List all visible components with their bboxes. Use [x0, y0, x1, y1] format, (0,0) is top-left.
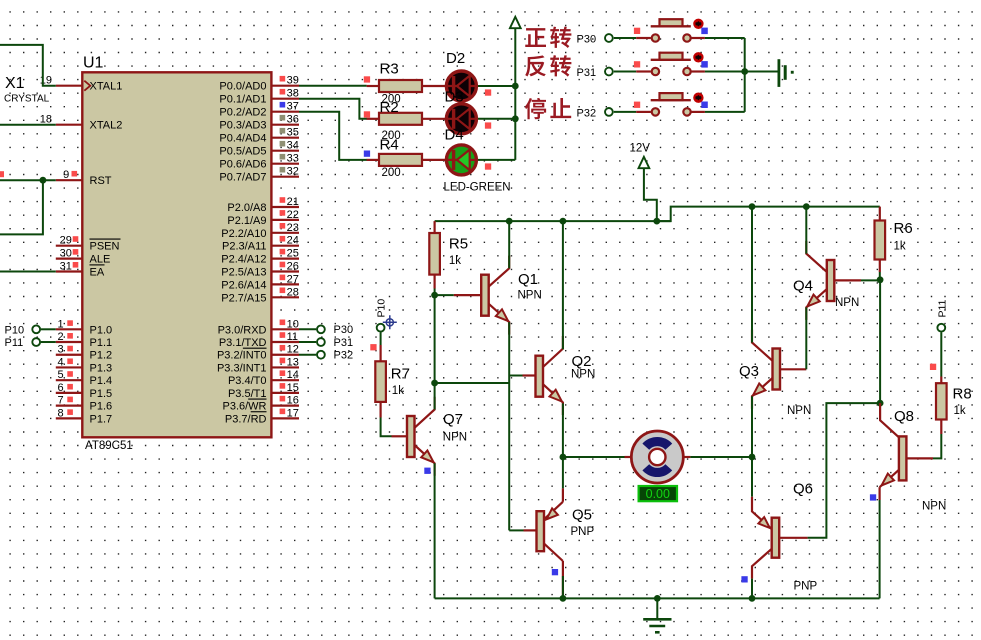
- button P30 button actuator: [694, 20, 702, 28]
- svg-text:29: 29: [60, 235, 72, 247]
- state square pin 39: [280, 76, 286, 82]
- pin stub right 14: [271, 283, 299, 285]
- resistor R3 body: [379, 80, 422, 92]
- button P31 button pin right: [692, 70, 705, 72]
- transistor Q4 emitter: [806, 289, 827, 320]
- svg-text:12: 12: [287, 344, 299, 356]
- svg-text:25: 25: [287, 248, 299, 260]
- wire RST: [0, 179, 56, 181]
- wire Q8 base: [906, 457, 933, 459]
- svg-text:P3.5/T1: P3.5/T1: [228, 388, 267, 400]
- svg-text:38: 38: [287, 88, 299, 100]
- svg-text:23: 23: [287, 222, 299, 234]
- svg-text:8: 8: [57, 407, 63, 419]
- node Q1 base: [431, 292, 438, 299]
- pin stub right 5: [271, 150, 299, 152]
- svg-text:P0.7/AD7: P0.7/AD7: [219, 172, 266, 184]
- resistor R4 lead right: [422, 159, 445, 161]
- pin stub right 15: [271, 296, 299, 298]
- power terminal arrow top: [510, 17, 521, 28]
- svg-text:EA: EA: [90, 267, 105, 279]
- terminal P30: [317, 325, 325, 333]
- svg-text:2: 2: [57, 331, 63, 343]
- state square RST wire: [0, 171, 4, 177]
- state square pin 30: [73, 249, 79, 255]
- svg-text:P3.1/TXD: P3.1/TXD: [219, 337, 267, 349]
- svg-text:P10: P10: [376, 299, 388, 318]
- state square pin 26: [280, 262, 286, 268]
- state square Q5: [552, 569, 558, 575]
- wire Q1 base: [435, 294, 454, 296]
- svg-text:P3.3/INT1: P3.3/INT1: [217, 362, 267, 374]
- power bus LEDs: [514, 29, 516, 160]
- overline RD: [251, 411, 267, 413]
- wire button P31 button to bus: [705, 71, 745, 73]
- state square button P32 button right: [701, 102, 708, 109]
- wire P10 to R7: [380, 332, 382, 345]
- transistor Q8 collector: [880, 403, 899, 437]
- svg-text:22: 22: [287, 209, 299, 221]
- button P31 button pin left: [636, 70, 651, 72]
- transistor Q1 bar: [481, 275, 489, 316]
- pin stub right 6: [271, 163, 299, 165]
- button P32 button actuator: [694, 94, 702, 102]
- svg-text:5: 5: [57, 369, 63, 381]
- svg-text:R6: R6: [894, 220, 913, 237]
- svg-text:P2.3/A11: P2.3/A11: [222, 241, 266, 253]
- svg-text:35: 35: [287, 127, 299, 139]
- pin stub left 13: [56, 417, 84, 419]
- node motor left: [560, 454, 567, 461]
- wire P11 to pin2: [41, 341, 56, 343]
- button P32 button cap: [660, 93, 683, 100]
- wire node to Q2 base column: [435, 382, 510, 384]
- pin stub right 4: [271, 137, 299, 139]
- node rail Q6: [749, 595, 756, 602]
- svg-text:D2: D2: [446, 50, 465, 67]
- wire Q7 emitter down: [434, 463, 436, 598]
- pin stub left 5: [56, 270, 84, 272]
- wire Q2 emitter to motor node: [562, 403, 564, 457]
- svg-text:Q4: Q4: [793, 278, 813, 295]
- supply bus left: [435, 220, 671, 222]
- svg-text:PNP: PNP: [794, 581, 818, 593]
- node bus D3: [512, 115, 519, 122]
- pin stub right 16: [271, 328, 299, 330]
- wire D3 to bus: [478, 118, 515, 120]
- svg-text:D4: D4: [445, 127, 464, 144]
- node bus Q2: [560, 218, 567, 225]
- transistor Q5 emitter: [544, 502, 563, 520]
- wire button bus vertical: [744, 38, 746, 112]
- state square button P31 button right: [701, 61, 708, 68]
- overline EA: [90, 264, 105, 266]
- transistor Q6 bar: [772, 518, 780, 558]
- terminal P11: [32, 338, 40, 346]
- state square pin 29: [73, 236, 79, 242]
- svg-text:NPN: NPN: [835, 297, 859, 309]
- svg-text:16: 16: [287, 395, 299, 407]
- wire D4 to bus: [478, 159, 515, 161]
- svg-text:P1.6: P1.6: [90, 401, 113, 413]
- motor brush bottom: [642, 464, 672, 477]
- ground rail: [435, 597, 880, 599]
- IC U1 AT89C51 body: [82, 72, 271, 437]
- svg-text:R8: R8: [953, 386, 972, 403]
- transistor Q2 bar: [536, 356, 544, 397]
- transistor Q8 bar: [899, 436, 907, 480]
- motor lead left: [625, 456, 633, 458]
- svg-text:CRYSTAL: CRYSTAL: [4, 94, 50, 105]
- svg-text:Q6: Q6: [793, 481, 813, 498]
- svg-text:R7: R7: [391, 366, 410, 383]
- svg-text:NPN: NPN: [443, 432, 467, 444]
- state square button P32 button left: [634, 102, 640, 108]
- svg-text:P2.1/A9: P2.1/A9: [227, 215, 266, 227]
- node RST junction: [40, 177, 47, 184]
- svg-text:P0.6/AD6: P0.6/AD6: [219, 159, 266, 171]
- svg-text:21: 21: [287, 196, 299, 208]
- svg-text:P3.4/T0: P3.4/T0: [228, 375, 267, 387]
- state square pin 1: [67, 320, 73, 326]
- svg-text:36: 36: [287, 114, 299, 126]
- pin stub left 0: [56, 85, 84, 87]
- button P30 button contact right: [683, 34, 690, 41]
- resistor R6 body: [875, 221, 886, 260]
- node Q7 collector junction: [431, 380, 438, 387]
- cursor crosshair: [383, 315, 397, 329]
- resistor R3 lead right: [422, 85, 445, 87]
- button P30 button pin left: [636, 37, 651, 39]
- transistor Q6 emitter: [752, 497, 772, 529]
- transistor Q3 collector: [752, 330, 773, 361]
- node rail Q3: [749, 203, 756, 210]
- state square Q6: [741, 576, 747, 582]
- wire base node down: [434, 295, 436, 383]
- button P31 button contact left: [652, 68, 659, 75]
- svg-text:R2: R2: [380, 99, 399, 116]
- transistor Q1 emitter arrow: [496, 309, 508, 321]
- state square pin 25: [280, 249, 286, 255]
- node Q8 collector junction: [877, 400, 884, 407]
- svg-text:P1.5: P1.5: [90, 388, 113, 400]
- svg-text:P2.5/A13: P2.5/A13: [221, 267, 266, 279]
- pin stub right 19: [271, 366, 299, 368]
- pin stub right 1: [271, 98, 299, 100]
- state square pin 21: [280, 197, 286, 203]
- transistor Q5 emitter arrow: [547, 508, 558, 519]
- LED D3: [446, 104, 476, 134]
- wire motor right: [690, 456, 752, 458]
- wire R8 to Q8 base: [933, 434, 941, 458]
- button P31 button bar: [651, 59, 691, 61]
- state square pin 11: [280, 332, 286, 338]
- svg-text:12V: 12V: [630, 143, 651, 155]
- resistor R7 body: [375, 361, 386, 402]
- svg-text:XTAL2: XTAL2: [90, 120, 123, 132]
- resistor R2 body: [379, 113, 422, 125]
- wire Q4 collector up: [805, 207, 807, 254]
- state square pin 22: [280, 210, 286, 216]
- terminal P30 button: [605, 34, 613, 42]
- node bus Q1: [506, 218, 513, 225]
- svg-text:7: 7: [57, 395, 63, 407]
- wire Q6 base to node: [808, 403, 881, 538]
- svg-text:11: 11: [287, 331, 298, 343]
- resistor R8 lead bottom: [940, 420, 942, 435]
- wire Q6 collector down: [751, 579, 753, 599]
- clock input mark XTAL1: [84, 81, 90, 91]
- svg-text:P2.4/A12: P2.4/A12: [221, 254, 266, 266]
- motor lead right: [682, 456, 690, 458]
- svg-text:P3.0/RXD: P3.0/RXD: [218, 324, 267, 336]
- pin stub right 12: [271, 258, 299, 260]
- button P30 button bar: [651, 25, 691, 27]
- pin stub right 23: [271, 417, 299, 419]
- svg-text:P3.6/WR: P3.6/WR: [222, 401, 266, 413]
- svg-text:NPN: NPN: [518, 290, 542, 302]
- wire Q1 emitter column: [508, 322, 510, 530]
- overline INT0: [243, 347, 267, 349]
- state square button P30 button left: [634, 28, 640, 34]
- svg-text:Q7: Q7: [443, 411, 463, 428]
- svg-text:Q1: Q1: [518, 271, 538, 288]
- state square pin 17: [280, 409, 286, 415]
- svg-text:1k: 1k: [894, 241, 906, 253]
- state square pin 23: [280, 223, 286, 229]
- resistor R2 lead left: [367, 118, 379, 120]
- svg-text:13: 13: [287, 356, 299, 368]
- node Q4 base: [877, 276, 884, 283]
- button P31 button actuator: [694, 53, 702, 61]
- resistor R5 body: [429, 233, 440, 275]
- wire Q3 base: [780, 368, 806, 370]
- svg-text:P2.2/A10: P2.2/A10: [221, 228, 266, 240]
- terminal P10: [32, 325, 40, 333]
- state square D2: [485, 89, 491, 95]
- svg-text:U1: U1: [83, 55, 104, 72]
- transistor Q3 bar: [773, 349, 781, 390]
- wire Q4 base: [834, 279, 861, 281]
- svg-text:P3.2/INT0: P3.2/INT0: [217, 350, 267, 362]
- label fanzhuan (reverse): [525, 55, 546, 76]
- state square pin 31: [73, 262, 79, 268]
- button P32 button contact right: [683, 108, 690, 115]
- node motor right: [749, 454, 756, 461]
- state square R7: [370, 344, 376, 350]
- svg-text:1: 1: [57, 318, 63, 330]
- state square R8: [930, 364, 936, 370]
- terminal P31: [317, 338, 325, 346]
- node bus D2: [512, 83, 519, 90]
- state square button P30 button right: [701, 28, 708, 34]
- LED D4 green: [446, 145, 476, 175]
- pin stub right 18: [271, 354, 299, 356]
- svg-text:39: 39: [287, 75, 299, 87]
- svg-text:P0.3/AD3: P0.3/AD3: [219, 120, 266, 132]
- wire crystal to XTAL2: [0, 124, 56, 126]
- wire bus to battery: [745, 71, 778, 73]
- state square pin 8: [67, 409, 73, 415]
- LED D2: [446, 71, 476, 101]
- state square pin 6: [67, 384, 73, 390]
- svg-text:P0.5/AD5: P0.5/AD5: [219, 146, 266, 158]
- svg-text:37: 37: [287, 101, 299, 113]
- pin stub left 7: [56, 341, 84, 343]
- resistor R4 lead left: [367, 159, 379, 161]
- svg-text:P1.3: P1.3: [90, 362, 113, 374]
- resistor R2 lead right: [422, 118, 445, 120]
- resistor R8 body: [936, 383, 947, 419]
- svg-text:Q8: Q8: [894, 408, 914, 425]
- svg-text:P0.0/AD0: P0.0/AD0: [219, 81, 266, 93]
- resistor R4 body: [379, 154, 422, 166]
- svg-text:P11: P11: [5, 337, 24, 349]
- button P32 button pin left: [636, 111, 651, 113]
- svg-text:P2.6/A14: P2.6/A14: [221, 279, 266, 291]
- motor brush top: [642, 437, 672, 450]
- svg-text:P0.1/AD1: P0.1/AD1: [219, 94, 266, 106]
- svg-text:26: 26: [287, 261, 299, 273]
- pin stub right 9: [271, 219, 299, 221]
- wire R6 to node: [879, 272, 881, 280]
- svg-text:34: 34: [287, 140, 299, 152]
- wire Q5 base: [509, 529, 523, 531]
- state square pin 5: [67, 371, 73, 377]
- button P32 button pin right: [692, 111, 705, 113]
- resistor R5 lead top: [434, 221, 436, 233]
- svg-text:R4: R4: [380, 137, 399, 154]
- transistor Q3 emitter arrow: [753, 384, 765, 396]
- battery cell positive plate: [778, 59, 781, 87]
- svg-text:LED-GREEN: LED-GREEN: [444, 181, 511, 193]
- svg-text:P31: P31: [577, 67, 597, 79]
- wire P11 to R8: [940, 332, 942, 376]
- motor hub: [649, 449, 665, 465]
- node bus 12V: [653, 218, 660, 225]
- pin stub right 11: [271, 245, 299, 247]
- resistor R6 lead bottom: [879, 260, 881, 273]
- svg-text:Q2: Q2: [572, 353, 592, 370]
- wire Q6 base: [779, 537, 807, 539]
- svg-text:4: 4: [57, 356, 63, 368]
- pin stub right 17: [271, 341, 299, 343]
- svg-text:P1.7: P1.7: [90, 413, 113, 425]
- svg-text:P1.0: P1.0: [90, 324, 113, 336]
- pin stub right 21: [271, 392, 299, 394]
- svg-text:27: 27: [287, 273, 299, 285]
- state square pin 2: [67, 333, 73, 339]
- wire button P30 button to bus: [705, 37, 745, 39]
- resistor R7 lead top: [380, 345, 382, 361]
- state square pin 15: [280, 383, 286, 389]
- transistor Q5 bar: [537, 511, 545, 551]
- svg-text:P31: P31: [334, 337, 354, 349]
- wire R5 to base node: [434, 289, 436, 296]
- wire right column down: [879, 280, 881, 403]
- state square pin 7: [67, 397, 73, 403]
- state square pin 33: [280, 154, 286, 160]
- state square pin 14: [280, 370, 286, 376]
- label zhengzhuan (forward): [525, 28, 546, 47]
- pin stub right 20: [271, 379, 299, 381]
- pin stub left 2: [56, 179, 84, 181]
- state square D3: [485, 122, 491, 128]
- svg-text:X1: X1: [5, 75, 25, 92]
- transistor Q2 emitter: [543, 384, 563, 415]
- wire P10 to pin1: [41, 328, 56, 330]
- button P32 button bar: [651, 99, 691, 101]
- terminal P32: [317, 351, 325, 359]
- wire terminal to button P30 button: [614, 37, 636, 39]
- battery cell negative plate: [784, 65, 787, 80]
- svg-text:RST: RST: [90, 175, 112, 187]
- svg-text:R5: R5: [449, 236, 468, 253]
- label tingzhi (stop): [525, 98, 546, 119]
- state square pin 16: [280, 396, 286, 402]
- svg-text:30: 30: [60, 248, 72, 260]
- state square pin 34: [280, 141, 286, 147]
- wire button P32 button to bus: [705, 111, 745, 113]
- state square pin 36: [280, 115, 286, 121]
- svg-text:24: 24: [287, 235, 299, 247]
- wire Q4 base green: [861, 279, 880, 281]
- state square pin 27: [280, 275, 286, 281]
- svg-text:9: 9: [63, 169, 69, 181]
- pin stub left 6: [56, 328, 84, 330]
- state square button P31 button left: [634, 61, 640, 67]
- svg-text:14: 14: [287, 369, 299, 381]
- button P30 button pin right: [692, 37, 705, 39]
- terminal P11 lower: [937, 324, 945, 332]
- svg-text:6: 6: [57, 382, 63, 394]
- wire Q3 emitter down: [751, 396, 753, 457]
- state square D4: [485, 163, 491, 169]
- svg-text:P0.2/AD2: P0.2/AD2: [219, 107, 266, 119]
- svg-text:P1.4: P1.4: [90, 375, 113, 387]
- transistor Q2 emitter arrow: [550, 390, 562, 402]
- svg-text:200: 200: [382, 167, 401, 179]
- state square pin 38: [280, 89, 286, 95]
- svg-text:10: 10: [287, 318, 299, 330]
- wire Q5 collector green part: [562, 576, 564, 598]
- svg-text:NPN: NPN: [922, 501, 946, 513]
- pin stub left 4: [56, 258, 84, 260]
- pin stub right 8: [271, 206, 299, 208]
- wire crystal to XTAL1: [0, 45, 56, 86]
- pin stub right 2: [271, 111, 299, 113]
- state square pin 12: [280, 345, 286, 351]
- resistor R8 lead top: [940, 377, 942, 384]
- svg-text:R3: R3: [380, 60, 399, 77]
- resistor R5 lead bottom: [434, 275, 436, 289]
- state square Q8: [870, 494, 876, 500]
- svg-text:XTAL1: XTAL1: [90, 81, 123, 93]
- wire D2 to bus: [478, 85, 515, 87]
- wire pin37 to R4: [299, 112, 367, 160]
- pin stub left 12: [56, 405, 84, 407]
- transistor Q6 collector: [752, 549, 772, 579]
- wire bus step to right rail: [657, 207, 880, 222]
- pin stub right 13: [271, 270, 299, 272]
- resistor R3 lead left: [367, 85, 379, 87]
- svg-text:NPN: NPN: [571, 369, 595, 381]
- state square R3: [364, 76, 370, 82]
- transistor Q6 emitter arrow: [758, 517, 769, 528]
- pin stub left 10: [56, 379, 84, 381]
- svg-text:P1.2: P1.2: [90, 350, 113, 362]
- node rail Q4: [803, 203, 810, 210]
